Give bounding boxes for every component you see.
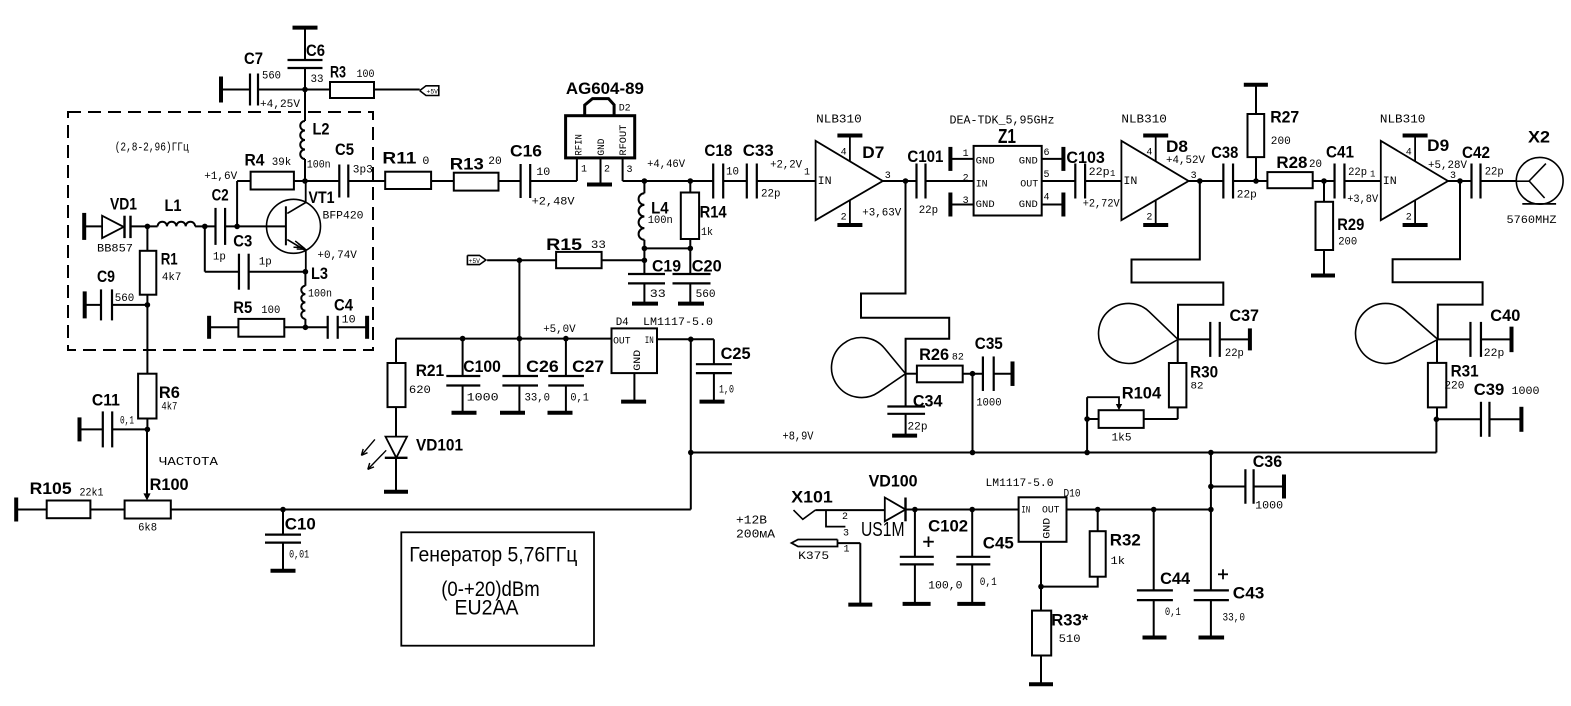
svg-text:200: 200	[1271, 136, 1291, 148]
svg-text:3: 3	[627, 165, 633, 176]
svg-text:0,1: 0,1	[570, 393, 589, 405]
svg-text:560: 560	[115, 293, 135, 305]
svg-text:LM1117-5.0: LM1117-5.0	[643, 317, 713, 329]
svg-text:C9: C9	[97, 267, 115, 286]
svg-text:+2,48V: +2,48V	[532, 197, 575, 209]
junction	[642, 178, 648, 184]
svg-text:C25: C25	[721, 344, 751, 363]
resistor R13	[450, 155, 502, 191]
svg-text:GND: GND	[596, 139, 608, 156]
wire	[146, 295, 148, 374]
net +8,9V rail	[691, 452, 1437, 454]
junction	[302, 87, 308, 93]
wire pin 6	[1042, 147, 1064, 171]
junction	[563, 336, 569, 342]
wire	[304, 159, 306, 181]
connector X2 (5760MHZ out)	[1507, 128, 1564, 228]
svg-text:GND: GND	[976, 199, 995, 211]
wire	[1481, 338, 1512, 340]
ground	[621, 373, 646, 402]
svg-text:20: 20	[1309, 159, 1322, 171]
filter Z1 (DEA-TDK 5,95GHz)	[950, 114, 1055, 216]
svg-text:NLB310: NLB310	[1121, 113, 1167, 127]
svg-text:4: 4	[1146, 148, 1152, 159]
svg-text:C16: C16	[510, 142, 542, 161]
svg-text:2: 2	[842, 512, 848, 523]
svg-text:6: 6	[1044, 148, 1050, 159]
junction	[969, 507, 975, 513]
wire	[1480, 180, 1515, 182]
wire	[1144, 418, 1178, 420]
wire	[925, 180, 973, 182]
wire	[204, 226, 206, 271]
svg-text:33: 33	[311, 74, 324, 86]
wire	[689, 181, 691, 193]
svg-text:VD101: VD101	[416, 436, 463, 455]
capacitor C26	[500, 339, 559, 413]
capacitor C10	[265, 510, 316, 571]
wire	[90, 509, 124, 511]
capacitor C16	[510, 142, 575, 209]
wire	[1178, 338, 1210, 340]
svg-text:C11: C11	[92, 391, 120, 410]
svg-text:510: 510	[1059, 634, 1081, 646]
svg-text:C36: C36	[1253, 452, 1283, 471]
wire	[1177, 407, 1179, 419]
wire pin 4	[1042, 193, 1064, 217]
wire	[236, 181, 238, 226]
junction	[903, 178, 909, 184]
svg-text:+1,6V: +1,6V	[204, 171, 237, 183]
junction	[912, 507, 918, 513]
svg-text:C45: C45	[983, 534, 1014, 553]
svg-text:1: 1	[804, 168, 810, 179]
svg-text:R29: R29	[1337, 215, 1364, 234]
wire	[815, 509, 885, 511]
svg-text:100n: 100n	[308, 289, 332, 301]
svg-text:1: 1	[844, 545, 850, 556]
svg-text:C102: C102	[928, 517, 968, 536]
wire	[1132, 181, 1224, 339]
svg-text:R3: R3	[330, 63, 346, 82]
capacitor C37	[1210, 306, 1259, 360]
wire	[657, 338, 691, 340]
wire	[1210, 453, 1212, 510]
svg-text:IN: IN	[818, 176, 832, 188]
wire	[1489, 418, 1521, 420]
junction	[517, 258, 523, 264]
svg-text:2: 2	[604, 165, 610, 176]
svg-text:C35: C35	[975, 334, 1003, 353]
wire	[112, 428, 147, 430]
svg-text:4k7: 4k7	[161, 402, 177, 414]
wire pin 1	[576, 158, 578, 181]
svg-text:R14: R14	[700, 203, 727, 222]
wire	[643, 181, 645, 193]
svg-text:1000: 1000	[1512, 386, 1540, 398]
capacitor C100	[446, 339, 501, 413]
transistor VT1 (BFP420)	[267, 181, 364, 272]
svg-text:C20: C20	[692, 257, 722, 276]
wire	[131, 225, 158, 227]
capacitor C41	[1326, 143, 1379, 207]
inductor L1	[158, 196, 196, 226]
wire	[1067, 509, 1211, 511]
diode VD100 (US1M)	[861, 472, 918, 542]
svg-text:D9: D9	[1427, 136, 1449, 155]
resistor R1	[140, 250, 182, 295]
svg-text:R11: R11	[382, 149, 416, 168]
junction	[688, 178, 694, 184]
svg-text:22k1: 22k1	[80, 488, 104, 500]
svg-text:0,01: 0,01	[289, 550, 309, 562]
capacitor C6	[288, 28, 326, 90]
svg-text:4k7: 4k7	[162, 272, 182, 284]
svg-text:C3: C3	[233, 232, 252, 251]
junction	[1208, 450, 1214, 456]
svg-text:R26: R26	[919, 345, 949, 364]
capacitor C20	[673, 257, 722, 304]
power flag +5V	[420, 86, 439, 96]
svg-text:RFOUT: RFOUT	[618, 125, 630, 156]
svg-text:+2,72V: +2,72V	[1083, 199, 1120, 211]
svg-text:C33: C33	[743, 141, 774, 160]
svg-text:100,0: 100,0	[928, 581, 963, 593]
svg-text:NLB310: NLB310	[816, 113, 862, 127]
junction	[1084, 416, 1090, 422]
svg-text:IN: IN	[1123, 176, 1137, 188]
svg-text:2: 2	[841, 213, 847, 224]
wire	[757, 180, 816, 182]
svg-text:1: 1	[1110, 169, 1115, 179]
capacitor C33	[743, 141, 781, 201]
svg-text:OUT: OUT	[1042, 504, 1060, 516]
wire	[518, 260, 520, 338]
svg-text:1: 1	[1370, 170, 1375, 180]
resistor R21	[388, 361, 445, 407]
svg-text:R31: R31	[1451, 362, 1479, 381]
junction	[145, 224, 151, 230]
svg-text:620: 620	[409, 385, 431, 397]
svg-text:GND: GND	[1042, 518, 1054, 539]
svg-text:33,0: 33,0	[525, 393, 551, 405]
junction	[460, 336, 466, 342]
wire	[690, 339, 692, 509]
resistor R105	[16, 479, 104, 522]
wire	[1233, 180, 1267, 182]
junction	[642, 246, 648, 252]
svg-text:C38: C38	[1211, 143, 1238, 162]
resistor R31	[1428, 362, 1479, 408]
svg-text:C19: C19	[652, 257, 681, 276]
svg-text:X2: X2	[1528, 128, 1550, 147]
wire	[1344, 180, 1380, 182]
junction	[1253, 178, 1259, 184]
svg-text:C34: C34	[913, 392, 943, 411]
capacitor C103	[1066, 148, 1120, 211]
wire	[1438, 338, 1471, 340]
wire	[530, 180, 577, 182]
svg-text:C103: C103	[1066, 148, 1105, 167]
wire	[689, 239, 691, 274]
svg-text:R33*: R33*	[1051, 611, 1088, 630]
wire	[171, 509, 691, 511]
wire	[623, 180, 713, 182]
svg-text:1k: 1k	[701, 227, 713, 239]
wire	[205, 271, 239, 273]
svg-text:R4: R4	[245, 151, 265, 170]
capacitor C18	[704, 141, 739, 199]
svg-text:22p: 22p	[1089, 167, 1110, 179]
svg-text:K375: K375	[798, 551, 829, 563]
wire	[994, 373, 1013, 375]
svg-text:+5V: +5V	[427, 89, 439, 96]
svg-text:20: 20	[488, 156, 502, 168]
wire	[1087, 418, 1099, 420]
resistor R15	[546, 235, 606, 268]
wire	[431, 180, 454, 182]
wire	[1435, 419, 1437, 452]
capacitor C34	[887, 374, 943, 436]
svg-text:C5: C5	[335, 140, 354, 159]
svg-text:C26: C26	[526, 357, 559, 376]
resistor R32	[1041, 510, 1141, 587]
capacitor C36	[1211, 452, 1284, 513]
wire	[209, 326, 238, 328]
wire	[1393, 181, 1483, 339]
svg-text:C43: C43	[1233, 584, 1265, 603]
svg-text:IN: IN	[1383, 176, 1397, 188]
junction	[302, 178, 308, 184]
svg-text:+0,74V: +0,74V	[317, 250, 357, 262]
svg-text:1p: 1p	[259, 257, 272, 269]
svg-text:GND: GND	[976, 156, 995, 168]
diode VD1 (BB857 varactor)	[84, 195, 137, 256]
wire	[237, 180, 251, 182]
svg-text:NLB310: NLB310	[1380, 113, 1426, 127]
svg-text:22p: 22p	[1237, 190, 1257, 202]
wire	[16, 509, 47, 511]
capacitor C5	[335, 140, 373, 198]
wire	[258, 89, 330, 91]
capacitor C35	[975, 334, 1013, 410]
net label +12В 200мА	[736, 514, 776, 542]
capacitor C39	[1474, 380, 1540, 437]
inductor L3	[301, 264, 332, 319]
wire	[1313, 180, 1335, 182]
junction	[1208, 507, 1214, 513]
capacitor C3	[233, 232, 271, 290]
svg-text:1000: 1000	[1255, 501, 1283, 513]
svg-text:Z1: Z1	[998, 126, 1016, 148]
junction	[234, 224, 240, 230]
svg-text:R30: R30	[1190, 363, 1218, 382]
svg-text:LM1117-5.0: LM1117-5.0	[986, 478, 1054, 490]
svg-text:C27: C27	[572, 357, 604, 376]
svg-text:10: 10	[726, 167, 739, 179]
svg-text:200: 200	[1338, 237, 1357, 249]
svg-text:1k: 1k	[1111, 556, 1126, 568]
junction	[303, 325, 309, 331]
svg-text:39k: 39k	[272, 157, 292, 169]
svg-text:+4,52V: +4,52V	[1166, 155, 1205, 167]
wire	[972, 374, 974, 453]
junction	[970, 371, 976, 377]
wire	[1085, 180, 1121, 182]
svg-text:0: 0	[422, 156, 429, 168]
svg-text:C7: C7	[244, 49, 263, 68]
inductor loop L (D9 output coil)	[1356, 303, 1438, 363]
svg-text:2: 2	[963, 174, 969, 185]
junction	[1434, 417, 1440, 423]
potentiometer R100 wiper arrow	[143, 429, 150, 500]
resistor R4	[245, 151, 294, 190]
wire	[1220, 338, 1250, 340]
wire	[80, 428, 103, 430]
svg-text:R15: R15	[546, 235, 582, 254]
svg-text:82: 82	[952, 353, 964, 364]
svg-text:22p: 22p	[1485, 167, 1504, 179]
resistor R5	[209, 298, 284, 339]
junction	[1038, 584, 1044, 590]
svg-text:6k8: 6k8	[138, 523, 157, 535]
junction	[202, 224, 208, 230]
svg-text:BB857: BB857	[97, 244, 133, 256]
wire	[338, 326, 367, 328]
capacitor C45	[956, 510, 1014, 604]
title box: Генератор 5,76ГГц (0-+20)dBm EU2AA	[401, 532, 594, 645]
svg-text:1,0: 1,0	[719, 385, 734, 397]
resistor R26	[917, 345, 964, 382]
svg-text:R32: R32	[1110, 531, 1141, 550]
wire	[1436, 339, 1438, 363]
svg-text:RFIN: RFIN	[574, 134, 586, 156]
junction	[303, 269, 309, 275]
svg-text:US1M: US1M	[861, 519, 905, 541]
wire	[906, 509, 1019, 511]
capacitor C11	[80, 391, 135, 448]
svg-text:4: 4	[1044, 192, 1050, 203]
svg-text:22p: 22p	[1225, 348, 1244, 360]
wire	[1086, 397, 1088, 452]
wire	[861, 181, 949, 374]
svg-text:4: 4	[1406, 148, 1412, 159]
wire	[294, 180, 305, 182]
wire	[499, 180, 521, 182]
potentiometer R104 wiper arrow	[1087, 397, 1122, 410]
junction	[145, 302, 151, 308]
capacitor C38	[1211, 143, 1257, 202]
svg-text:+5V: +5V	[469, 258, 481, 265]
capacitor C42	[1462, 143, 1504, 199]
svg-text:R105: R105	[30, 479, 72, 498]
junction	[1197, 178, 1203, 184]
junction	[1151, 507, 1157, 513]
op-amp D7 (NLB310)	[816, 113, 902, 226]
svg-text:220: 220	[1444, 381, 1464, 393]
svg-text:1p: 1p	[213, 252, 226, 264]
svg-text:R28: R28	[1276, 153, 1307, 172]
inductor loop L (D7 output coil)	[831, 338, 905, 398]
svg-text:+4,25V: +4,25V	[260, 99, 300, 111]
svg-text:33: 33	[650, 289, 666, 301]
wire	[304, 272, 306, 286]
junction	[517, 336, 523, 342]
svg-text:EU2AA: EU2AA	[455, 597, 519, 620]
svg-text:3: 3	[843, 529, 849, 540]
wire	[195, 225, 215, 227]
svg-text:5760MHZ: 5760MHZ	[1507, 215, 1557, 227]
svg-text:C39: C39	[1474, 380, 1505, 399]
svg-text:2: 2	[1406, 213, 1412, 224]
resistor R3	[330, 63, 375, 99]
svg-text:R100: R100	[150, 475, 189, 494]
wire	[85, 304, 101, 306]
wire	[602, 259, 645, 261]
junction	[688, 337, 694, 343]
svg-text:C2: C2	[212, 186, 229, 205]
svg-text:VD100: VD100	[869, 472, 918, 491]
capacitor C44	[1137, 510, 1191, 638]
svg-text:D4: D4	[616, 317, 629, 329]
junction	[1321, 178, 1327, 184]
wire pin 3	[622, 158, 624, 181]
svg-text:1000: 1000	[976, 398, 1002, 410]
wire	[883, 180, 917, 182]
wire	[304, 319, 306, 327]
resistor R27	[1244, 85, 1299, 181]
led VD101	[361, 407, 463, 492]
resistor R29	[1311, 181, 1364, 276]
svg-text:22p: 22p	[761, 189, 781, 201]
svg-text:+4,46V: +4,46V	[647, 159, 685, 171]
resistor R6	[138, 374, 180, 419]
junction	[970, 450, 976, 456]
svg-text:0,1: 0,1	[1165, 607, 1181, 619]
capacitor C27	[548, 339, 605, 413]
wire	[348, 180, 385, 182]
svg-text:4: 4	[841, 148, 847, 159]
potentiometer R104	[1099, 384, 1162, 445]
svg-text:L2: L2	[313, 120, 330, 139]
svg-text:10: 10	[342, 315, 356, 327]
wire	[906, 373, 917, 375]
wire	[1189, 180, 1224, 182]
junction	[1208, 484, 1214, 490]
wire	[487, 259, 556, 261]
capacitor C7	[221, 49, 300, 111]
svg-text:C42: C42	[1462, 143, 1490, 162]
voltage regulator D4 (LM1117-5.0)	[612, 317, 714, 373]
svg-text:R21: R21	[416, 361, 445, 380]
svg-text:C100: C100	[463, 357, 501, 376]
svg-text:C4: C4	[334, 296, 353, 315]
wire	[723, 180, 746, 182]
junction	[688, 450, 694, 456]
wire	[146, 226, 148, 250]
svg-text:IN: IN	[976, 178, 988, 190]
wire	[643, 240, 645, 274]
svg-text:560: 560	[696, 289, 716, 301]
svg-text:IN: IN	[1021, 504, 1030, 516]
junction	[688, 246, 694, 252]
svg-text:L1: L1	[165, 196, 182, 215]
oscillator section box (2,8-2,96)GHz	[68, 112, 373, 350]
capacitor C25	[696, 339, 751, 401]
svg-text:+2,2V: +2,2V	[770, 160, 802, 172]
junction	[642, 258, 648, 264]
capacitor C4	[328, 296, 367, 339]
